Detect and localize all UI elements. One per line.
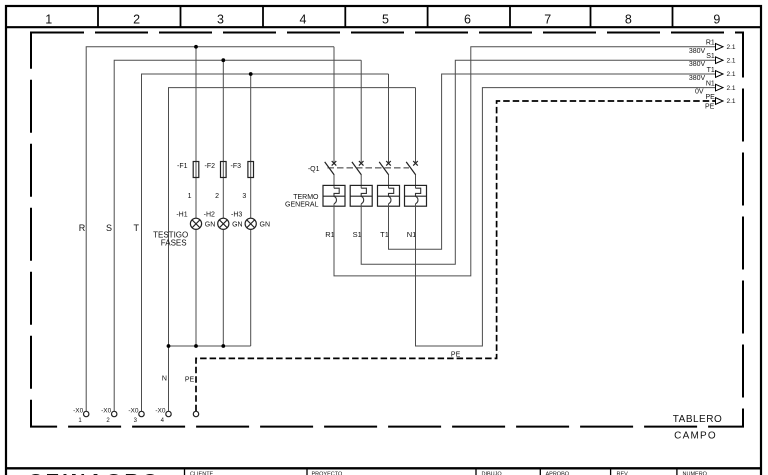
svg-text:3: 3 [242,193,246,200]
wire N phase with bus N1 [169,88,416,412]
svg-text:PE: PE [705,104,715,111]
svg-text:6: 6 [464,12,471,26]
svg-text:-H1: -H1 [176,212,187,219]
svg-text:380V: 380V [689,61,706,68]
svg-text:4: 4 [300,12,307,26]
svg-text:GN: GN [205,222,216,229]
svg-text:PE: PE [705,94,715,101]
breaker Q1 pole 2 input wire [360,60,362,162]
node junction branch1-return [194,344,198,348]
breaker Q1 pole 4 input wire [415,88,417,163]
svg-text:N1: N1 [407,230,417,239]
svg-text:2.1: 2.1 [727,44,736,51]
svg-text:S1: S1 [353,230,362,239]
svg-text:REV: REV [617,471,629,475]
wire PE (dashed) [196,101,716,411]
svg-text:PROYECTO: PROYECTO [312,471,343,475]
wire lamp branch 2 [222,60,224,346]
node junction branch3-T1 [249,72,253,76]
svg-text:S: S [106,223,112,233]
terminal X0:1 [73,407,89,424]
svg-text:R1: R1 [706,40,715,47]
label TESTIGO FASES [153,230,188,247]
svg-text:GN: GN [260,222,271,229]
wire R phase with bus R1 [86,47,334,412]
node junction branch2-return [221,344,225,348]
svg-text:FASES: FASES [161,239,187,248]
svg-text:-X0: -X0 [73,407,84,414]
title block [6,468,761,475]
wire lamp branch 1 [195,47,197,346]
svg-text:GN: GN [232,222,243,229]
node junction N-return [167,344,171,348]
overload relay label [285,194,319,208]
svg-text:-H3: -H3 [231,212,242,219]
svg-text:DIBUJO: DIBUJO [482,471,503,475]
svg-text:CLIENTE: CLIENTE [190,471,214,475]
svg-text:-X0: -X0 [128,407,139,414]
terminal X0:3 [128,407,144,424]
svg-text:APROBO: APROBO [546,471,570,475]
svg-text:380V: 380V [689,48,706,55]
wire N1 output loop to connector [416,88,716,346]
wire lamp branch 3 [250,74,252,346]
svg-text:T1: T1 [707,67,715,74]
svg-text:PE: PE [451,351,461,358]
svg-text:2: 2 [215,193,219,200]
wire pole2 to overload [360,175,362,188]
panel boundary TABLERO (dashed) [31,33,743,427]
svg-text:1: 1 [188,193,192,200]
svg-text:1: 1 [45,12,52,26]
svg-text:2: 2 [133,12,140,26]
svg-text:CEINAGRO: CEINAGRO [28,470,161,475]
overload heater element pole 2 [361,188,366,204]
svg-text:-X0: -X0 [155,407,166,414]
off-page connector S1 to 2.1 [689,53,736,68]
svg-text:T: T [134,223,140,233]
svg-text:CAMPO: CAMPO [674,430,717,441]
wire T1 output loop to connector [389,74,716,249]
off-page connector R1 to 2.1 [689,40,736,55]
svg-text:-F2: -F2 [205,163,216,170]
wire T phase with bus T1 [142,74,389,411]
wire R1 output loop to connector [334,47,716,276]
breaker Q1 pole 3 input wire [388,74,390,162]
svg-text:-F1: -F1 [177,163,188,170]
svg-text:7: 7 [544,12,551,26]
svg-text:5: 5 [382,12,389,26]
lamp H2 [204,212,243,230]
svg-text:2.1: 2.1 [727,85,736,92]
wire pole3 to overload [388,175,390,188]
svg-text:NUMERO: NUMERO [683,471,708,475]
wire S1 output loop to connector [361,60,715,264]
terminal X0:4 [155,407,171,424]
breaker Q1 (4-pole) [325,161,418,175]
node junction branch1-R1 [194,45,198,49]
terminal PE [193,411,198,416]
wire S phase with bus S1 [114,60,361,411]
svg-text:N1: N1 [706,80,715,87]
svg-text:TABLERO: TABLERO [673,414,722,425]
overload heater element pole 1 [334,188,339,204]
breaker Q1 pole 1 input wire [333,47,335,162]
lamp H1 [176,212,215,230]
off-page connector T1 to 2.1 [689,67,736,82]
svg-text:N: N [162,376,167,383]
node junction branch2-S1 [221,58,225,62]
fuse F1 [177,162,199,178]
svg-text:R: R [79,223,86,233]
svg-text:-X0: -X0 [101,407,112,414]
fuse F2 [205,162,227,178]
svg-text:0V: 0V [695,89,704,96]
svg-text:R1: R1 [325,230,335,239]
terminal X0:2 [101,407,117,424]
overload heater element pole 4 [416,188,421,204]
svg-text:S1: S1 [706,53,715,60]
svg-text:2.1: 2.1 [727,71,736,78]
overload heater element pole 3 [389,188,394,204]
svg-text:8: 8 [625,12,632,26]
wire pole4 to overload [415,175,417,188]
svg-text:-Q1: -Q1 [308,166,320,173]
svg-text:-F3: -F3 [231,163,242,170]
fuse F3 [231,162,254,178]
overload relay U1 TERMO GENERAL [323,185,427,206]
svg-text:2.1: 2.1 [727,98,736,105]
svg-text:-H2: -H2 [204,212,215,219]
svg-text:TERMO: TERMO [293,194,319,201]
lamp H3 [231,212,270,230]
off-page connector PE to 2.1 [705,94,736,111]
svg-text:PE: PE [185,376,195,383]
svg-text:GENERAL: GENERAL [285,201,319,208]
svg-text:3: 3 [217,12,224,26]
svg-text:380V: 380V [689,75,706,82]
wire pole1 to overload [333,175,335,188]
off-page connector N1 to 2.1 [695,80,736,95]
svg-text:2.1: 2.1 [727,57,736,64]
wire lamp return bus [169,345,251,347]
breaker Q1 mechanical link [328,167,410,169]
svg-text:T1: T1 [380,230,389,239]
svg-text:9: 9 [713,12,720,26]
